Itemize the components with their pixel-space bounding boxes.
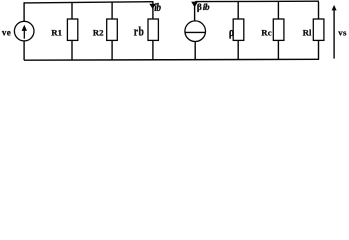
wire R2 top bbox=[111, 2, 113, 19]
wire bottom rail bbox=[24, 58, 319, 61]
svg-text:βib: βib bbox=[197, 3, 210, 13]
svg-text:ve: ve bbox=[2, 28, 11, 38]
current source beta-ib (circle with bar) bbox=[185, 21, 206, 42]
svg-text:ρ: ρ bbox=[229, 26, 234, 39]
wire top rail left segment bbox=[24, 2, 153, 3]
wire rb bottom bbox=[152, 40, 154, 60]
wire left branch top bbox=[23, 2, 25, 21]
wire Rc top bbox=[277, 2, 279, 20]
svg-text:vs: vs bbox=[338, 28, 347, 38]
svg-text:Rc: Rc bbox=[261, 27, 272, 37]
wire Rl bottom bbox=[318, 40, 320, 59]
resistor R2 bbox=[107, 19, 118, 40]
wire rb top bbox=[152, 2, 154, 20]
wire left branch bottom bbox=[23, 41, 25, 60]
wire R1 bottom bbox=[71, 40, 73, 60]
source ve (circle with up arrow) bbox=[14, 21, 34, 41]
wire R2 bottom bbox=[111, 40, 113, 60]
resistor R1 bbox=[67, 19, 77, 40]
svg-text:ib: ib bbox=[154, 2, 161, 14]
arrowhead current ib (down) bbox=[149, 4, 156, 9]
resistor rb bbox=[148, 19, 158, 40]
wire Rc bottom bbox=[277, 40, 279, 59]
wire rho bottom bbox=[237, 40, 239, 59]
wire beta-ib bottom bbox=[194, 42, 196, 60]
resistor Rc bbox=[273, 19, 284, 40]
arrowhead current beta-ib (down) bbox=[191, 2, 198, 8]
svg-text:R2: R2 bbox=[93, 27, 104, 37]
svg-text:rb: rb bbox=[134, 25, 145, 38]
resistor Rl bbox=[313, 19, 324, 40]
svg-text:R1: R1 bbox=[51, 27, 62, 37]
wire beta-ib stem bbox=[194, 4, 196, 22]
arrow vs (output voltage, up) bbox=[332, 5, 337, 59]
wire rho top bbox=[237, 2, 239, 20]
wire R1 top bbox=[71, 2, 73, 19]
wire top rail right segment bbox=[195, 0, 319, 2]
wire Rl top / right edge bbox=[318, 2, 320, 20]
resistor rho bbox=[233, 19, 244, 40]
svg-text:Rl: Rl bbox=[303, 27, 312, 37]
